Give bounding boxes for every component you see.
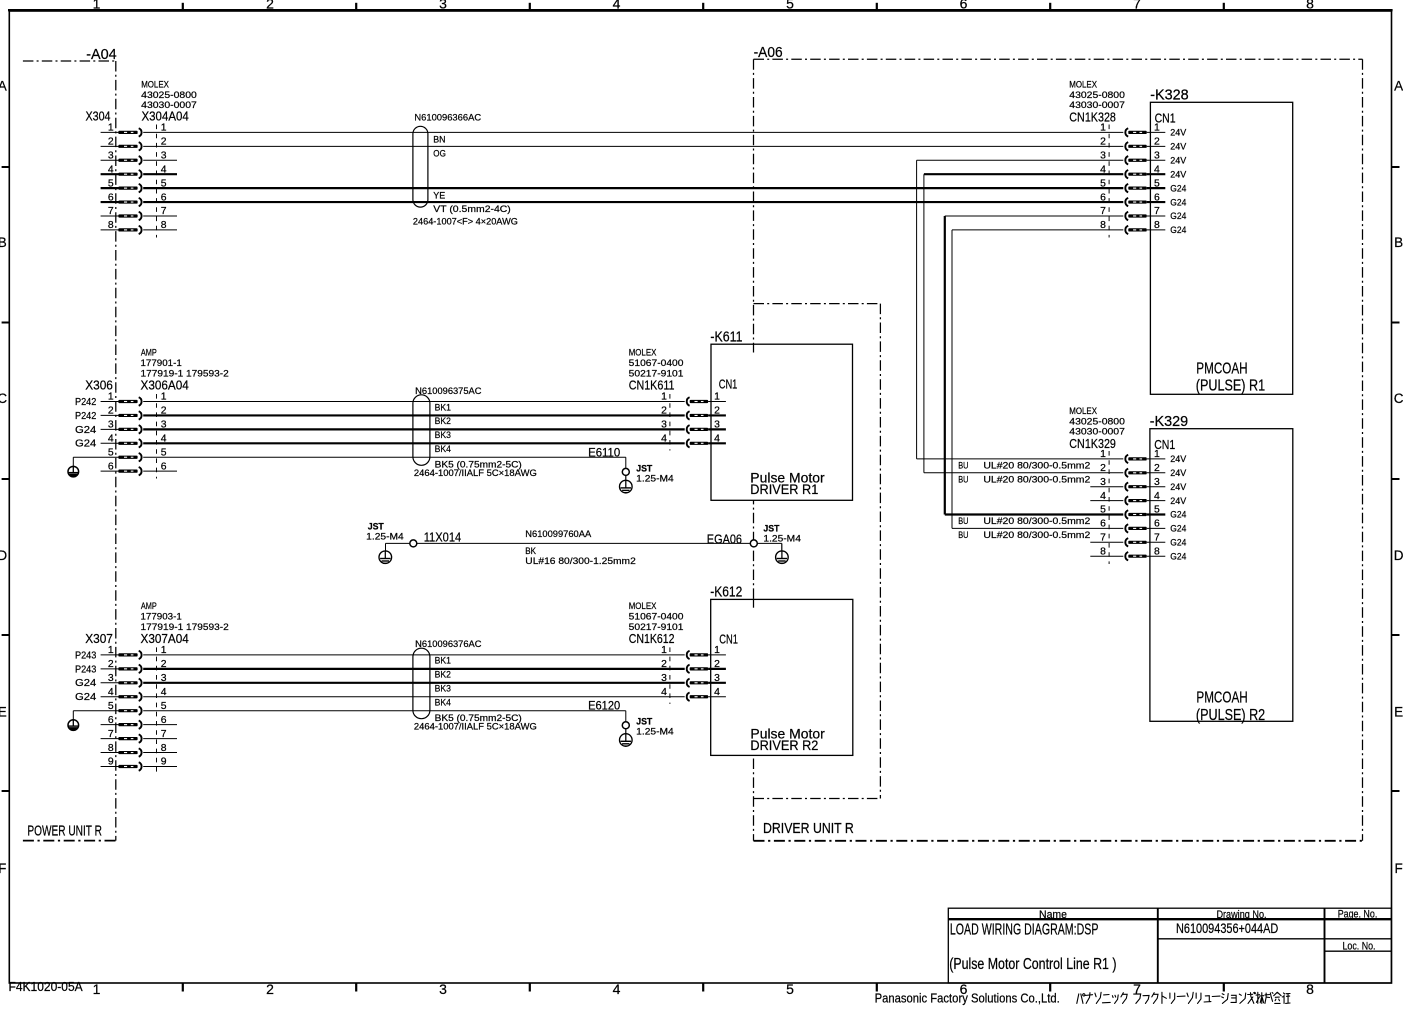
wire BK3 X306.3 to CN1K611.3 (143, 428, 685, 430)
svg-text:(PULSE) R1: (PULSE) R1 (1196, 378, 1265, 395)
svg-text:X306A04: X306A04 (141, 377, 189, 392)
wire BK3 X307.3 to CN1K612.3 (143, 682, 685, 684)
wire YE X304.5 to CN1K328.5 (143, 187, 1123, 189)
svg-text:24V: 24V (1170, 468, 1187, 478)
module K611 Pulse Motor DRIVER R1 (710, 329, 852, 500)
svg-text:2: 2 (661, 406, 667, 417)
chassis ground at X306.5 (68, 457, 119, 477)
wire BN X304.1 to CN1K328.1 (143, 131, 1123, 133)
svg-text:CN1: CN1 (1154, 438, 1175, 452)
svg-text:CN1: CN1 (719, 378, 738, 392)
svg-text:1: 1 (1100, 449, 1106, 460)
svg-text:JST: JST (368, 521, 384, 531)
svg-text:MOLEX: MOLEX (1069, 79, 1097, 89)
chassis ground at X307.5 (68, 711, 119, 731)
svg-text:P243: P243 (75, 650, 97, 661)
svg-text:Page. No.: Page. No. (1338, 908, 1378, 920)
svg-text:POWER UNIT R: POWER UNIT R (27, 824, 102, 840)
terminal ring EGA06 (707, 531, 758, 547)
svg-text:1: 1 (1100, 123, 1106, 134)
wire BU CN1K328.4 to CN1K329.2 (924, 174, 1123, 484)
svg-text:BU: BU (958, 475, 968, 485)
svg-text:DRIVER R1: DRIVER R1 (750, 481, 818, 497)
svg-text:3: 3 (439, 0, 447, 12)
svg-text:(Pulse Motor Control Line R1 ): (Pulse Motor Control Line R1 ) (949, 956, 1116, 973)
svg-text:JST: JST (636, 717, 652, 727)
svg-text:6: 6 (960, 0, 968, 12)
ground JST 1.25-M4 (E6110) (620, 463, 674, 493)
svg-text:VT (0.5mm2-4C): VT (0.5mm2-4C) (433, 204, 511, 214)
svg-text:8: 8 (108, 220, 114, 231)
svg-text:BU: BU (958, 516, 968, 526)
svg-text:BU: BU (958, 461, 968, 471)
svg-text:51067-0400: 51067-0400 (629, 611, 684, 621)
svg-text:X304A04: X304A04 (142, 108, 189, 123)
svg-text:1.25-M4: 1.25-M4 (636, 473, 674, 483)
cable N610096375AC (413, 386, 537, 478)
svg-text:5: 5 (1100, 505, 1106, 516)
svg-text:BU: BU (958, 530, 968, 540)
svg-text:F: F (1394, 861, 1402, 876)
svg-text:2464-1007/IIALF 5C×18AWG: 2464-1007/IIALF 5C×18AWG (414, 468, 537, 478)
svg-text:E6120: E6120 (588, 701, 620, 713)
svg-text:E: E (1394, 704, 1403, 719)
svg-text:Panasonic Factory Solutions Co: Panasonic Factory Solutions Co.,Ltd. (875, 990, 1060, 1005)
svg-text:PMCOAH: PMCOAH (1196, 690, 1247, 707)
wire BK5 X307.5 to ground E6120 (143, 701, 626, 722)
svg-text:1: 1 (93, 0, 101, 12)
cable N610096366AC (413, 113, 518, 227)
svg-text:6: 6 (1100, 519, 1106, 530)
svg-text:1: 1 (93, 981, 101, 997)
svg-text:JST: JST (636, 463, 652, 473)
svg-text:OG: OG (433, 149, 446, 159)
connector CN1K612 (629, 601, 726, 704)
wire BK5 X306.5 to ground E6110 (143, 447, 626, 468)
terminal ring 11X014 (410, 540, 417, 547)
svg-text:G24: G24 (1170, 510, 1186, 520)
svg-text:2: 2 (266, 981, 274, 997)
svg-text:1: 1 (108, 123, 114, 134)
svg-text:UL#20 80/300-0.5mm2: UL#20 80/300-0.5mm2 (983, 516, 1090, 526)
wire OG X304.2 to CN1K328.2 (143, 145, 1123, 147)
svg-text:G24: G24 (75, 692, 97, 703)
svg-text:E: E (0, 704, 7, 719)
svg-text:5: 5 (1100, 178, 1106, 189)
svg-text:177901-1: 177901-1 (141, 358, 182, 368)
svg-text:177903-1: 177903-1 (141, 611, 182, 621)
connector CN1K328 (1069, 79, 1187, 237)
svg-text:3: 3 (108, 150, 114, 161)
svg-text:2: 2 (1100, 463, 1106, 474)
svg-text:43025-0800: 43025-0800 (1069, 90, 1125, 100)
svg-text:43025-0800: 43025-0800 (1069, 416, 1125, 426)
svg-text:24V: 24V (1170, 496, 1187, 506)
svg-text:1.25-M4: 1.25-M4 (366, 532, 404, 542)
svg-text:2: 2 (266, 0, 274, 12)
svg-text:4: 4 (661, 687, 667, 698)
wire BK4 X306.4 to CN1K611.4 (143, 442, 685, 444)
wire BU CN1K328.3 to CN1K329.1 (917, 160, 1124, 470)
title block (948, 908, 1391, 983)
svg-text:CN1K328: CN1K328 (1069, 109, 1116, 124)
svg-text:4: 4 (661, 433, 667, 444)
svg-text:G24: G24 (75, 678, 97, 689)
svg-text:CN1K329: CN1K329 (1069, 436, 1116, 451)
wire BK2 X307.2 to CN1K612.2 (143, 668, 685, 670)
wire BK1 X306.1 to CN1K611.1 (143, 401, 685, 403)
svg-text:PMCOAH: PMCOAH (1196, 360, 1247, 377)
svg-text:BK2: BK2 (435, 416, 451, 426)
svg-text:5: 5 (786, 0, 794, 12)
svg-text:P243: P243 (75, 664, 97, 675)
svg-text:G24: G24 (1170, 197, 1186, 207)
svg-text:24V: 24V (1170, 155, 1187, 165)
svg-text:CN1: CN1 (719, 632, 738, 646)
svg-text:-K612: -K612 (710, 585, 742, 601)
svg-text:B: B (0, 235, 7, 250)
svg-text:G24: G24 (1170, 538, 1186, 548)
svg-text:4: 4 (108, 164, 114, 175)
svg-text:BK3: BK3 (435, 684, 451, 694)
svg-text:Loc. No.: Loc. No. (1343, 940, 1376, 952)
svg-text:11X014: 11X014 (424, 529, 462, 544)
wire BK2 X306.2 to CN1K611.2 (143, 414, 685, 416)
svg-text:LOAD WIRING DIAGRAM:DSP: LOAD WIRING DIAGRAM:DSP (950, 922, 1099, 939)
svg-text:3: 3 (661, 673, 667, 684)
connector X304 / X304A04 (86, 79, 197, 237)
svg-text:G24: G24 (1170, 524, 1186, 534)
ground JST 1.25-M4 (E6120) (620, 717, 674, 747)
svg-text:YE: YE (433, 190, 445, 200)
svg-text:3: 3 (439, 981, 447, 997)
svg-text:DRIVER UNIT R: DRIVER UNIT R (763, 821, 854, 837)
svg-text:P242: P242 (75, 411, 97, 422)
svg-text:-K611: -K611 (710, 329, 742, 345)
svg-text:F4K1020-05A: F4K1020-05A (9, 979, 83, 994)
svg-text:EGA06: EGA06 (707, 531, 742, 546)
svg-text:E6110: E6110 (588, 447, 620, 459)
svg-text:DRIVER R2: DRIVER R2 (750, 737, 818, 753)
svg-text:BN: BN (433, 135, 445, 145)
svg-text:3: 3 (661, 420, 667, 431)
svg-text:BK2: BK2 (435, 670, 451, 680)
svg-text:6: 6 (1100, 192, 1106, 203)
wire VT X304.6 to CN1K328.6 (143, 201, 1123, 203)
svg-text:1: 1 (661, 645, 667, 656)
svg-text:2: 2 (108, 137, 114, 148)
module K329 PMCOAH (PULSE) R2 (1150, 414, 1293, 724)
svg-text:UL#20 80/300-0.5mm2: UL#20 80/300-0.5mm2 (983, 530, 1090, 540)
svg-text:P242: P242 (75, 397, 97, 408)
unit box -A04 POWER UNIT R (23, 47, 117, 841)
svg-text:A: A (0, 78, 7, 93)
svg-text:AMP: AMP (141, 348, 157, 358)
svg-text:N610099760AA: N610099760AA (525, 529, 592, 539)
svg-text:X304: X304 (86, 108, 111, 123)
svg-text:CN1K612: CN1K612 (629, 631, 675, 646)
svg-text:2: 2 (661, 659, 667, 670)
svg-text:UL#20 80/300-0.5mm2: UL#20 80/300-0.5mm2 (983, 475, 1090, 485)
svg-text:X307A04: X307A04 (141, 631, 189, 646)
svg-text:A: A (1394, 78, 1403, 93)
svg-text:(PULSE) R2: (PULSE) R2 (1196, 707, 1265, 724)
svg-text:G24: G24 (1170, 211, 1186, 221)
svg-text:7: 7 (108, 206, 114, 217)
module K612 Pulse Motor DRIVER R2 (710, 585, 853, 756)
svg-text:BK4: BK4 (435, 444, 451, 454)
svg-text:X307: X307 (85, 631, 113, 646)
svg-text:C: C (0, 391, 7, 406)
wire BK4 X307.4 to CN1K612.4 (143, 696, 685, 698)
svg-text:BK4: BK4 (435, 698, 451, 708)
svg-text:AMP: AMP (141, 601, 157, 611)
ground JST 1.25-M4 (11X014) (366, 521, 404, 563)
wire BU CN1K328.8 to CN1K329.6 (952, 230, 1123, 540)
svg-text:5: 5 (108, 178, 114, 189)
svg-text:N610096376AC: N610096376AC (415, 639, 482, 649)
wire BU CN1K328.7 to CN1K329.5 (945, 216, 1124, 526)
svg-text:G24: G24 (1170, 225, 1186, 235)
svg-text:5: 5 (786, 981, 794, 997)
svg-text:N610096366AC: N610096366AC (414, 113, 481, 123)
svg-text:D: D (0, 548, 7, 563)
svg-text:G24: G24 (75, 439, 97, 450)
svg-text:F: F (0, 861, 6, 876)
module K328 PMCOAH (PULSE) R1 (1150, 88, 1293, 395)
svg-text:MOLEX: MOLEX (1069, 406, 1097, 416)
svg-text:-K328: -K328 (1150, 88, 1189, 104)
svg-text:BK3: BK3 (435, 430, 451, 440)
svg-text:1.25-M4: 1.25-M4 (763, 534, 801, 544)
svg-text:JST: JST (763, 523, 779, 533)
svg-text:51067-0400: 51067-0400 (629, 358, 684, 368)
wire BK1 X307.1 to CN1K612.1 (143, 654, 685, 656)
svg-text:MOLEX: MOLEX (629, 601, 657, 611)
svg-text:2: 2 (1100, 137, 1106, 148)
svg-text:Name: Name (1039, 909, 1067, 921)
svg-text:G24: G24 (75, 425, 97, 436)
ground wire 11X014 to EGA06 (N610099760AA) (386, 529, 782, 566)
svg-text:MOLEX: MOLEX (141, 79, 169, 89)
svg-text:6: 6 (108, 192, 114, 203)
svg-text:-A04: -A04 (86, 47, 117, 63)
svg-text:2464-1007<F> 4×20AWG: 2464-1007<F> 4×20AWG (413, 217, 518, 227)
svg-text:BK1: BK1 (435, 402, 451, 412)
svg-text:8: 8 (1306, 0, 1314, 12)
svg-text:G24: G24 (1170, 551, 1186, 561)
svg-text:N610094356+044AD: N610094356+044AD (1176, 921, 1279, 936)
X304 unconnected pin stubs 3,4,7,8 (143, 160, 177, 230)
svg-text:BK1: BK1 (435, 656, 451, 666)
svg-text:1: 1 (661, 392, 667, 403)
svg-text:-K329: -K329 (1150, 414, 1189, 430)
svg-text:4: 4 (613, 0, 621, 12)
unit box -A06 DRIVER UNIT R (754, 45, 1363, 841)
footer Japanese company name (vector strokes) (1077, 992, 1290, 1003)
svg-text:24V: 24V (1170, 142, 1187, 152)
svg-text:D: D (1394, 548, 1403, 563)
svg-text:X306: X306 (85, 377, 113, 392)
svg-text:43025-0800: 43025-0800 (141, 90, 197, 100)
connector X307 / X307A04 (75, 601, 229, 774)
svg-text:1.25-M4: 1.25-M4 (636, 727, 674, 737)
svg-text:UL#20 80/300-0.5mm2: UL#20 80/300-0.5mm2 (983, 461, 1090, 471)
svg-text:G24: G24 (1170, 183, 1186, 193)
svg-text:4: 4 (613, 981, 621, 997)
svg-text:24V: 24V (1170, 454, 1187, 464)
svg-text:24V: 24V (1170, 128, 1187, 138)
ground JST 1.25-M4 (EGA06) (763, 523, 801, 563)
svg-text:N610096375AC: N610096375AC (415, 386, 482, 396)
cable N610096376AC (413, 639, 537, 732)
connector CN1K611 (629, 348, 726, 451)
svg-text:B: B (1394, 235, 1403, 250)
svg-text:2464-1007/IIALF 5C×18AWG: 2464-1007/IIALF 5C×18AWG (414, 722, 537, 732)
svg-text:-A06: -A06 (754, 45, 783, 61)
svg-text:C: C (1394, 391, 1403, 406)
connector X306 / X306A04 (75, 348, 229, 479)
svg-text:CN1K611: CN1K611 (629, 377, 675, 392)
svg-text:Drawing No.: Drawing No. (1216, 909, 1266, 921)
svg-text:24V: 24V (1170, 482, 1187, 492)
svg-text:MOLEX: MOLEX (629, 348, 657, 358)
svg-text:BK: BK (525, 546, 536, 556)
connector CN1K329 (1069, 406, 1187, 564)
svg-text:CN1: CN1 (1155, 112, 1176, 126)
svg-text:7: 7 (1133, 0, 1141, 12)
svg-text:UL#16 80/300-1.25mm2: UL#16 80/300-1.25mm2 (525, 556, 636, 566)
svg-text:24V: 24V (1170, 169, 1187, 179)
